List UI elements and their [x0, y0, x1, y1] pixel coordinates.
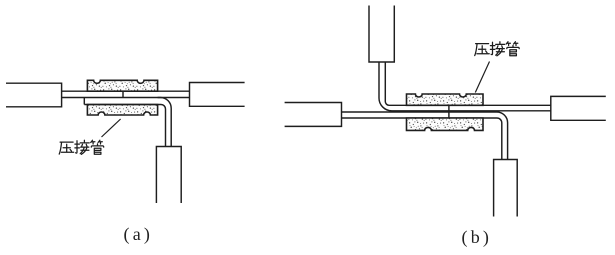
wire top-cable inner line to upper band top [385, 62, 551, 105]
char 接 [75, 140, 89, 154]
cable B1 top cable [369, 6, 394, 63]
wire branch conductor closed end [83, 98, 85, 105]
crimp tube upper half (b) [407, 94, 484, 105]
wire lower band top line to outer bend [342, 112, 508, 160]
caption (a) [124, 224, 154, 245]
wire branch bottom line to bend [84, 104, 157, 106]
label 压接管 (a) [59, 140, 103, 154]
caption (b) [462, 227, 493, 248]
crimp tube upper half (a) [87, 80, 157, 91]
wire top-cable outer line to upper band bottom [379, 62, 551, 111]
wire branch inner bend line [158, 105, 166, 147]
wire branch outer bend line [158, 98, 172, 147]
crimp tube lower half (b) [407, 118, 484, 130]
leader line label (a) [102, 119, 121, 137]
cable A3 bottom branch cable [156, 147, 181, 204]
char 压 [59, 142, 73, 154]
cable A2 right insulated cable [190, 83, 245, 107]
leader line label (b) [475, 62, 489, 93]
cable B4 bottom branch cable [494, 160, 518, 217]
char 管 [91, 140, 104, 154]
cable B3 right insulated cable [551, 96, 606, 120]
crimp tube lower half (a) [87, 105, 157, 116]
node conductor butt seam inside tube (b) [448, 105, 450, 118]
node conductor butt seam inside tube [122, 91, 124, 97]
wire main conductor top line [62, 90, 190, 92]
wire lower band bottom line to inner bend [342, 118, 502, 160]
label 压接管 (b) [475, 42, 520, 56]
wire main conductor bottom line [62, 97, 190, 99]
cable A1 left insulated cable [6, 83, 62, 107]
cable B2 left insulated cable [285, 103, 342, 127]
